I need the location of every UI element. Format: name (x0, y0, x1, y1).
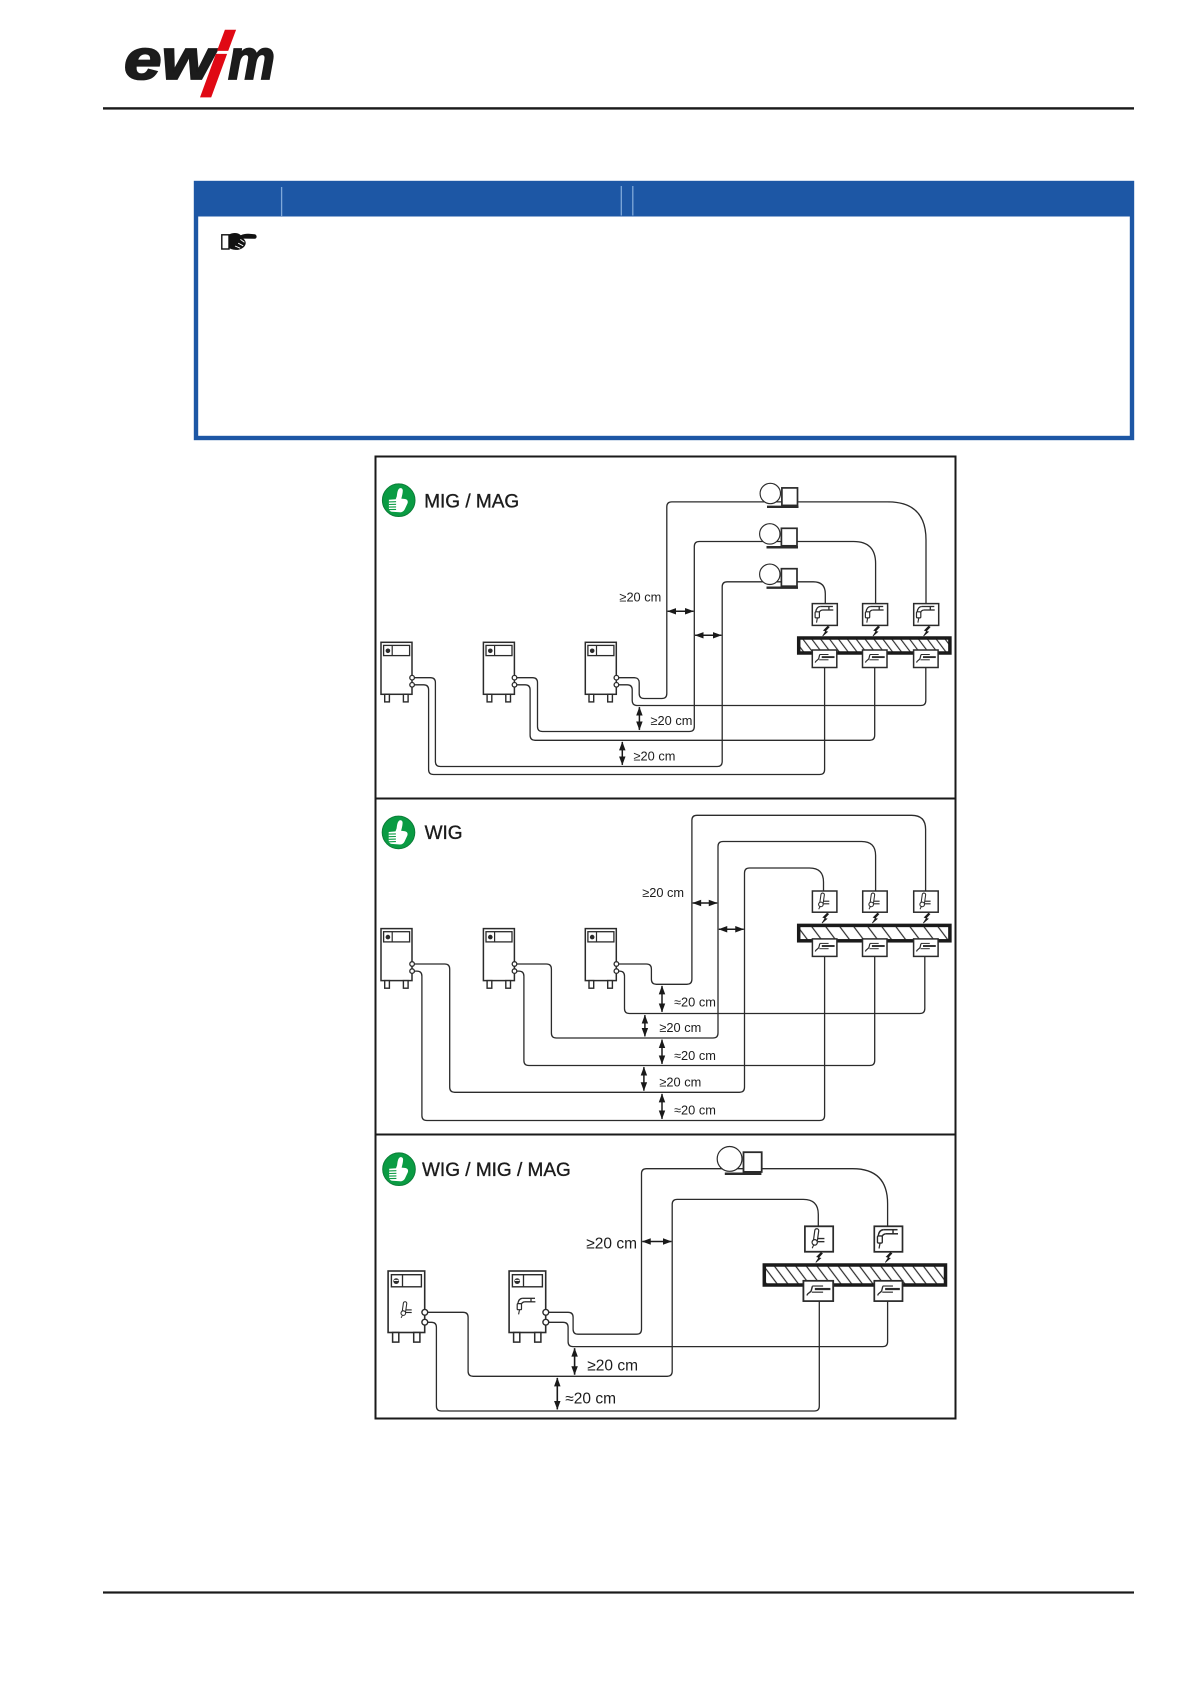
power source 3 (WIG) (585, 929, 618, 989)
workpiece clamp 3 (WIG) (914, 939, 939, 957)
wire power source 3 torch cable to WIG torch 3 (616, 815, 925, 984)
svg-text:≈20 cm: ≈20 cm (674, 1103, 716, 1118)
torch 2 (MIG) (863, 604, 888, 626)
svg-text:≥20 cm: ≥20 cm (619, 590, 661, 605)
MIG torch (combined) (874, 1226, 902, 1252)
header rule (103, 107, 1134, 109)
dimension arrow own pair ~20 cm (combined) (556, 1378, 558, 1410)
pointing hand icon (222, 233, 257, 250)
svg-text:ew: ew (124, 28, 218, 92)
wire WIG power source torch cable to WIG torch (425, 1199, 819, 1376)
blue note box header bar (194, 181, 1134, 217)
svg-text:≥20 cm: ≥20 cm (587, 1358, 638, 1375)
wire power source 2 workpiece lead to clamp 2 (WIG) (514, 955, 874, 1066)
diagram frame: WIG/MIG/MAG (376, 1135, 956, 1419)
wire feeder 1 (760, 483, 798, 507)
blue note box border (196, 183, 1132, 438)
svg-text:≈20 cm: ≈20 cm (674, 1048, 716, 1063)
wire power source 3 workpiece lead to clamp 3 (616, 668, 926, 706)
MIG power source (combined) (509, 1271, 549, 1342)
dimension arrow cable spacing >=20 cm (combined) (574, 1348, 576, 1375)
workpiece clamp 1 (combined) (803, 1281, 833, 1301)
workpiece clamp 2 (combined) (874, 1281, 902, 1301)
wire power source 1 workpiece lead to clamp 1 (WIG) (412, 955, 825, 1121)
dimension arrow cable spacing upper >=20 cm (MIG/MAG) (638, 707, 640, 730)
arc bolt WIG torch 2 (872, 913, 879, 923)
dimension arrow own pair ~20 cm #1 (WIG) (661, 986, 663, 1012)
torch 1 (MIG) (812, 604, 837, 626)
arc bolt WIG torch (combined) (816, 1253, 823, 1263)
dimension arrow pair spacing >=20 cm #2 (WIG) (643, 1067, 645, 1091)
svg-text:≥20 cm: ≥20 cm (586, 1235, 637, 1252)
header cell separator 1 (281, 187, 283, 216)
workpiece (WIG) (799, 925, 950, 940)
header cell separator 2 (620, 186, 622, 216)
svg-text:≥20 cm: ≥20 cm (651, 713, 693, 728)
workpiece (combined) (764, 1265, 945, 1285)
svg-text:≈20 cm: ≈20 cm (674, 994, 716, 1009)
workpiece clamp 1 (WIG) (812, 939, 837, 957)
dimension arrow hose packages >=20 cm (WIG) (693, 902, 718, 904)
diagram frame: MIG/MAG (376, 457, 956, 799)
svg-text:≥20 cm: ≥20 cm (642, 885, 684, 900)
workpiece clamp 1 (812, 650, 837, 668)
svg-text:≥20 cm: ≥20 cm (659, 1020, 701, 1035)
dimension arrow hose packages >=20 cm (combined) (642, 1241, 671, 1243)
arc bolt torch 2 (873, 626, 880, 636)
wire power source 2 workpiece lead to clamp 2 (514, 668, 874, 741)
workpiece clamp 3 (914, 650, 939, 668)
dimension arrow cable spacing lower >=20 cm (MIG/MAG) (621, 742, 623, 765)
workpiece (MIG/MAG) (799, 638, 950, 653)
wire power source 2 torch cable to WIG torch 2 (514, 842, 875, 1039)
dimension arrow pair spacing >=20 cm #1 (WIG) (644, 1015, 646, 1036)
dimension arrow intermediate hose packages >=20 cm (MIG/MAG) (668, 610, 694, 612)
svg-text:WIG / MIG / MAG: WIG / MIG / MAG (422, 1160, 571, 1181)
diagram frame: WIG (376, 799, 956, 1135)
WIG power source (combined) (388, 1271, 428, 1342)
workpiece clamp 2 (WIG) (863, 939, 888, 957)
wire WIG power source workpiece lead to clamp 1 (425, 1300, 820, 1411)
wire power source 2 torch cable via feeder 2 to torch 2 (514, 542, 875, 732)
arc bolt WIG torch 1 (822, 913, 829, 923)
wire power source 3 workpiece lead to clamp 3 (WIG) (616, 955, 925, 1014)
arc bolt torch 3 (924, 626, 931, 636)
wire power source 1 workpiece lead to clamp 1 (412, 668, 825, 775)
WIG icon inside power source (400, 1301, 411, 1318)
WIG torch 1 (812, 891, 837, 912)
dimension arrow own pair ~20 cm #3 (WIG) (661, 1094, 663, 1119)
arc bolt WIG torch 3 (923, 913, 930, 923)
WIG torch 3 (914, 891, 939, 912)
dimension arrow spacing to workpiece (MIG/MAG) (695, 634, 721, 636)
wire feeder 3 (760, 564, 798, 588)
ewm logo red slash (upper segment) (217, 30, 236, 51)
svg-text:WIG: WIG (425, 823, 463, 844)
wire feeder 2 (760, 524, 798, 548)
dimension arrow spacing to workpiece (WIG) (719, 928, 744, 930)
wire power source 1 torch cable to WIG torch 1 (412, 868, 824, 1092)
thumbs-up OK icon (WIG) (382, 816, 415, 849)
svg-text:≈20 cm: ≈20 cm (565, 1390, 616, 1407)
ewm logo red slash (lower segment) (200, 54, 227, 98)
workpiece clamp 2 (863, 650, 888, 668)
thumbs-up OK icon (MIG/MAG) (382, 484, 415, 517)
footer rule (103, 1591, 1134, 1593)
wire MIG power source workpiece lead to clamp 2 (546, 1300, 888, 1347)
arc bolt torch 1 (823, 626, 830, 636)
wire power source 3 torch cable via feeder 1 to torch 3 (616, 502, 926, 699)
power source 1 (MIG/MAG) (381, 642, 414, 702)
arc bolt MIG torch (combined) (885, 1253, 892, 1263)
power source 3 (MIG/MAG) (585, 642, 618, 702)
WIG torch 2 (863, 891, 888, 912)
wire MIG power source torch cable via feeder to MIG torch (546, 1169, 888, 1335)
wire power source 1 torch cable via feeder 3 to torch 1 (412, 582, 825, 767)
power source 2 (MIG/MAG) (483, 642, 516, 702)
thumbs-up OK icon (WIG/MIG/MAG) (383, 1153, 416, 1186)
power source 2 (WIG) (483, 929, 516, 989)
dimension arrow own pair ~20 cm #2 (WIG) (661, 1040, 663, 1064)
header cell separator 3 (632, 186, 634, 216)
torch 3 (MIG) (914, 604, 939, 626)
wire feeder (combined) (717, 1147, 762, 1174)
MIG icon inside power source (517, 1298, 535, 1314)
power source 1 (WIG) (381, 929, 414, 989)
WIG torch (combined) (805, 1226, 833, 1251)
svg-text:≥20 cm: ≥20 cm (659, 1075, 701, 1090)
svg-text:≥20 cm: ≥20 cm (634, 748, 676, 763)
svg-text:m: m (228, 28, 275, 92)
svg-text:MIG / MAG: MIG / MAG (424, 491, 519, 512)
